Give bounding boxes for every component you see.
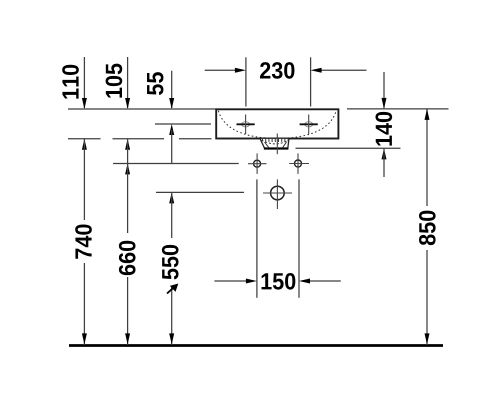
dimension 105 line top: [127, 57, 129, 108]
dimension 740 label: [75, 224, 92, 258]
dimension 740 line: [82, 139, 87, 150]
wire rim reference line left: [68, 108, 216, 110]
tap hole marker left: [237, 115, 255, 135]
mounting hole right: [289, 153, 309, 174]
dimension 660 label: [119, 241, 136, 275]
dimension 140 lower segment: [382, 148, 387, 159]
dimension 55 line top: [171, 71, 173, 108]
dimension 150 arrow left: [214, 280, 254, 282]
adjustable height arrow symbol: [167, 284, 178, 294]
dimension 150 arrow right: [302, 280, 341, 282]
dimension 850 line: [426, 109, 428, 206]
dimension 105 label: [106, 64, 123, 98]
mounting hole left: [248, 153, 267, 174]
wire tap-hole level line left: [155, 123, 211, 125]
dimension 140 upper segment: [383, 72, 385, 108]
dimension 230 arrow left: [205, 69, 243, 71]
dimension 55 lower arrow: [169, 124, 174, 135]
dimension 55 label: [147, 72, 163, 95]
wire drain level line (550): [156, 191, 244, 193]
dimension 550 line: [169, 192, 174, 203]
wire basin bottom extension line: [68, 138, 212, 140]
dimension 230 arrow right: [314, 69, 367, 71]
dimension 660 line: [125, 139, 130, 150]
dimension 110 label: [62, 65, 79, 99]
wire drain bottom extension right (140): [296, 147, 401, 149]
dimension 550 label: [162, 245, 179, 280]
dimension 230 label: [260, 62, 294, 79]
centre line of drain: [276, 134, 278, 155]
dimension 150 label: [262, 273, 296, 290]
basin outline: [216, 109, 338, 138]
tap hole marker right: [300, 115, 318, 135]
dimension 140 label: [375, 112, 392, 146]
drain trap body: [260, 138, 289, 148]
dimension 230 extension lines: [245, 57, 247, 106]
dimension 150 extension lines: [256, 179, 258, 297]
drain pipe hole: [263, 179, 292, 209]
dimension 850 label: [419, 211, 436, 246]
wire mounting-hole level line (660): [113, 163, 239, 165]
wire rim reference line right: [347, 108, 449, 110]
basin bowl hidden curve: [218, 111, 336, 139]
floor line: [69, 344, 443, 347]
dimension 110 line top: [83, 57, 85, 108]
